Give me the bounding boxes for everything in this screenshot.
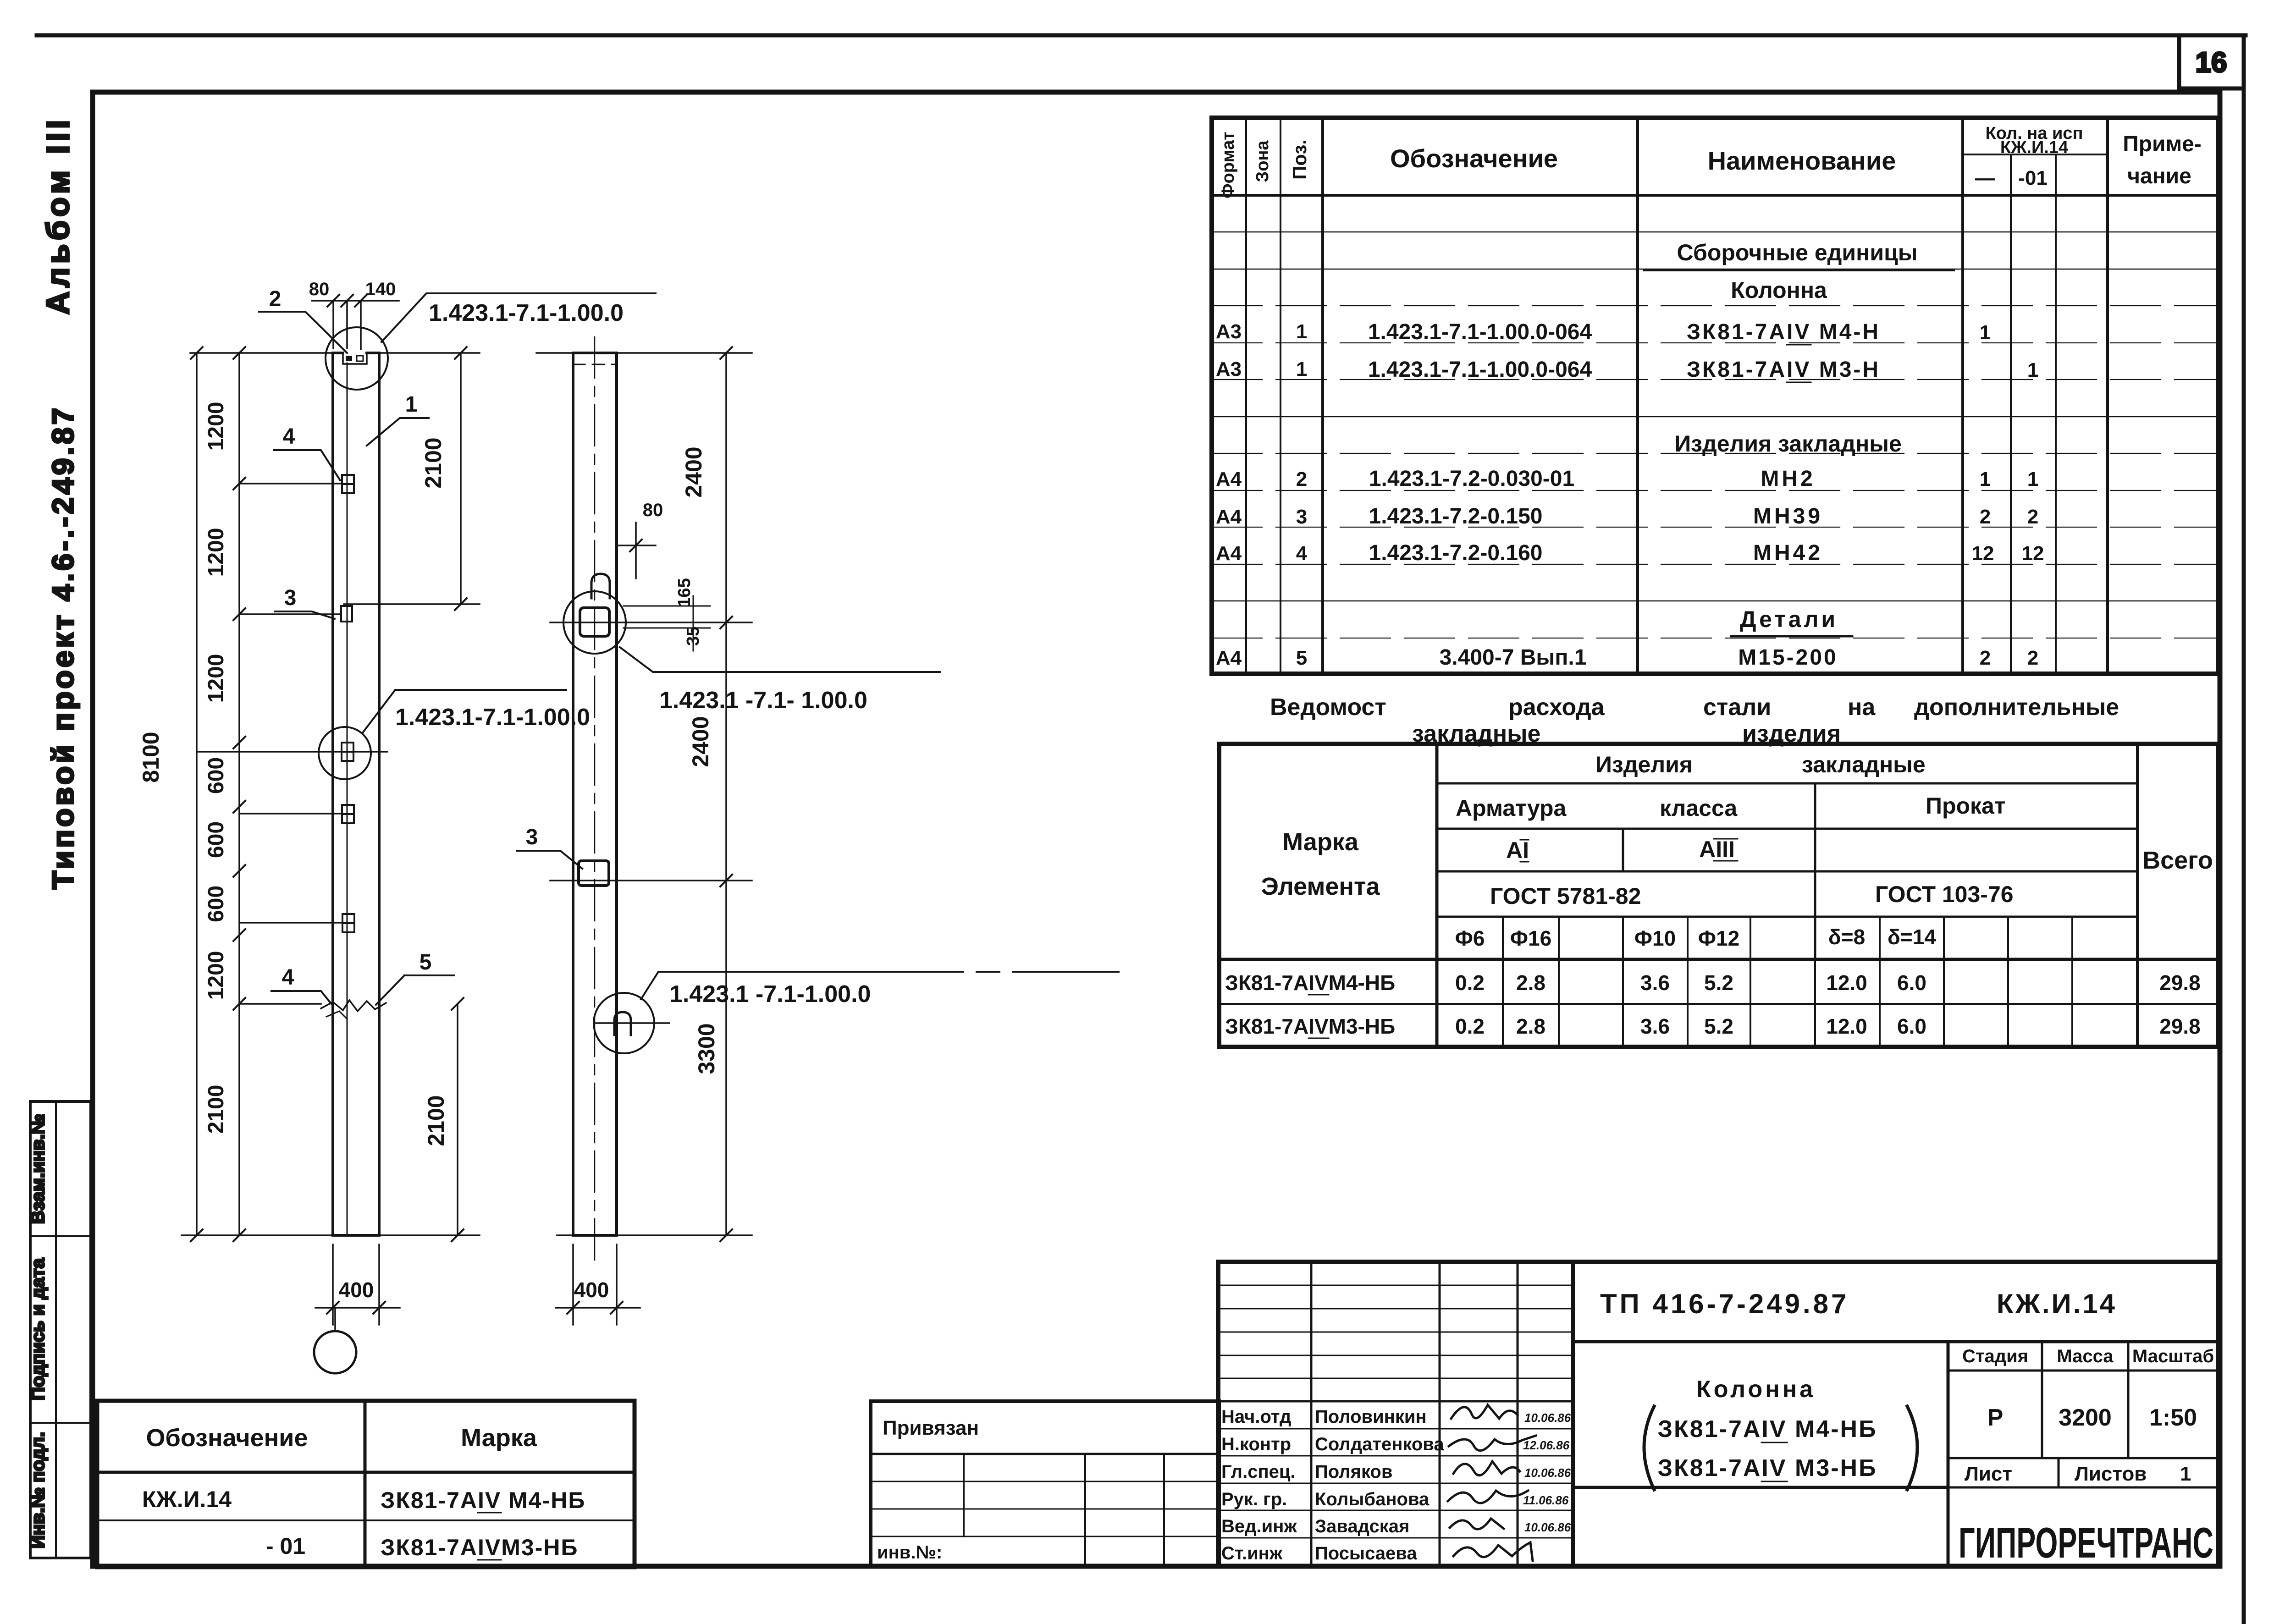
- data row 2: ЗК81-7АIVМ3-НБ: [1225, 1014, 2201, 1038]
- svg-text:Ф16: Ф16: [1510, 926, 1551, 950]
- diameter sub-column rules: [1502, 917, 1504, 1047]
- big parentheses: [1644, 1406, 1654, 1490]
- overline АI: [1520, 839, 1529, 841]
- dashed cap line near top: [573, 364, 617, 365]
- underline IV marks: [1761, 1442, 1787, 1443]
- svg-text:Гл.спец.: Гл.спец.: [1221, 1462, 1296, 1482]
- left margin strip boxes: [30, 1101, 91, 1558]
- break mark on column 1: [321, 1000, 386, 1011]
- svg-text:1.423.1-7.2-0.030-01: 1.423.1-7.2-0.030-01: [1369, 467, 1574, 491]
- callout circle on column 2 (embed МН2): [563, 591, 626, 654]
- svg-text:0.2: 0.2: [1455, 1014, 1485, 1038]
- svg-text:ЗК81-7АIV М4-Н: ЗК81-7АIV М4-Н: [1687, 320, 1880, 344]
- svg-text:А4: А4: [1216, 542, 1242, 565]
- chain ticks: [233, 478, 245, 1010]
- svg-text:12: 12: [1972, 542, 1994, 565]
- signature area column rules: [1310, 1262, 1313, 1566]
- spec table header rules: [1963, 154, 2108, 155]
- svg-text:ЗК81-7АIV М3-НБ: ЗК81-7АIV М3-НБ: [1657, 1455, 1877, 1481]
- svg-text:Прокат: Прокат: [1926, 793, 2005, 819]
- svg-text:1.423.1-7.2-0.150: 1.423.1-7.2-0.150: [1369, 504, 1543, 528]
- small dims 165 / 35: [624, 596, 710, 651]
- dim 2100 top right of column 1: [344, 353, 480, 604]
- dim 80/140 above top: [312, 301, 399, 349]
- svg-text:А4: А4: [1216, 468, 1242, 490]
- svg-text:Наименование: Наименование: [1708, 146, 1896, 175]
- notch embed marks: [346, 356, 352, 361]
- chain labels: [204, 402, 228, 1134]
- svg-text:600: 600: [204, 821, 228, 858]
- title block outer box: [1218, 1262, 2219, 1566]
- svg-text:4: 4: [1296, 542, 1308, 565]
- svg-text:Посысаева: Посысаева: [1315, 1543, 1417, 1563]
- svg-text:ГОСТ 5781-82: ГОСТ 5781-82: [1490, 883, 1641, 909]
- svg-text:стали: стали: [1703, 694, 1771, 721]
- svg-text:1: 1: [1980, 321, 1991, 344]
- dim line through circle: [550, 622, 752, 623]
- Арматура/Прокат divider: [1814, 783, 1816, 959]
- svg-text:600: 600: [204, 757, 228, 794]
- svg-text:МН39: МН39: [1753, 504, 1823, 528]
- svg-text:МН42: МН42: [1753, 541, 1823, 565]
- lifting hook top: [591, 574, 610, 598]
- svg-text:400: 400: [339, 1278, 374, 1302]
- overall dim 8100 line: [196, 353, 198, 1235]
- svg-text:2100: 2100: [204, 1085, 228, 1134]
- svg-text:Марка: Марка: [461, 1424, 537, 1452]
- svg-text:ЗК81-7АIV М4-НБ: ЗК81-7АIV М4-НБ: [1657, 1416, 1877, 1442]
- svg-text:2: 2: [1980, 647, 1991, 669]
- svg-text:1: 1: [1296, 320, 1307, 343]
- svg-text:ЗК81-7АIVМ3-НБ: ЗК81-7АIVМ3-НБ: [1225, 1014, 1395, 1038]
- signature names: [1221, 1407, 1444, 1563]
- svg-text:Стадия: Стадия: [1962, 1346, 2028, 1366]
- column 2 body: [573, 353, 617, 1235]
- svg-text:М15-200: М15-200: [1738, 645, 1838, 670]
- underline IV marks in Марка: [478, 1512, 501, 1514]
- svg-text:δ=8: δ=8: [1828, 925, 1865, 949]
- break row dim line: [239, 1003, 321, 1005]
- svg-text:Половинкин: Половинкин: [1315, 1407, 1427, 1427]
- svg-text:Рук. гр.: Рук. гр.: [1221, 1489, 1287, 1509]
- svg-text:1.423.1-7.1-1.00.0-064: 1.423.1-7.1-1.00.0-064: [1368, 358, 1592, 382]
- signature dates: [1523, 1411, 1571, 1534]
- svg-text:1: 1: [1296, 358, 1307, 380]
- svg-text:16: 16: [2196, 47, 2227, 78]
- svg-text:-01: -01: [2018, 167, 2048, 189]
- svg-text:1:50: 1:50: [2149, 1404, 2197, 1431]
- mid callout circle on column 1: [319, 727, 371, 779]
- svg-text:Листов: Листов: [2075, 1463, 2147, 1485]
- column 1 top notch: [343, 353, 367, 364]
- IV underlines in data rows: [1308, 994, 1329, 996]
- leader to callout 1.423.1-7.1-1.00.0 (mid): [362, 690, 566, 733]
- svg-text:Колонна: Колонна: [1731, 277, 1827, 303]
- embed row lines from chain: [197, 484, 387, 923]
- header captions: [1261, 752, 2213, 950]
- svg-text:Зона: Зона: [1253, 140, 1272, 182]
- svg-text:1200: 1200: [204, 951, 228, 1000]
- Лист/Листов row: [1948, 1457, 2219, 1459]
- svg-text:Элемента: Элемента: [1261, 873, 1380, 900]
- svg-text:2: 2: [2027, 647, 2038, 669]
- svg-text:ЗК81-7АIV М3-Н: ЗК81-7АIV М3-Н: [1687, 358, 1880, 382]
- svg-text:расхода: расхода: [1508, 694, 1605, 721]
- dim 400 below column 2: [556, 1244, 640, 1325]
- svg-text:Завадская: Завадская: [1315, 1516, 1409, 1536]
- underline: Сборочные единицы: [1644, 270, 1954, 271]
- COLUMNS: [138, 279, 1119, 1373]
- svg-text:2: 2: [2027, 506, 2038, 528]
- svg-text:Лист: Лист: [1965, 1463, 2012, 1485]
- svg-text:АI: АI: [1506, 837, 1529, 863]
- svg-text:3200: 3200: [2059, 1404, 2112, 1431]
- svg-text:12.0: 12.0: [1826, 1014, 1867, 1038]
- doc number: ТП 416-7-249.87 КЖ.И.14: [1600, 1288, 2117, 1319]
- svg-text:2.8: 2.8: [1516, 1014, 1545, 1038]
- svg-text:1200: 1200: [204, 528, 228, 577]
- svg-text:Солдатенкова: Солдатенкова: [1315, 1434, 1444, 1454]
- svg-text:1.423.1 -7.1- 1.00.0: 1.423.1 -7.1- 1.00.0: [659, 687, 867, 714]
- svg-text:Ф6: Ф6: [1455, 926, 1485, 950]
- svg-text:Нач.отд: Нач.отд: [1221, 1407, 1291, 1427]
- svg-text:80: 80: [309, 279, 330, 299]
- doc number cell rule: [1573, 1340, 2219, 1343]
- signature area row rules (upper empty rows): [1218, 1285, 1573, 1286]
- svg-text:29.8: 29.8: [2159, 971, 2201, 995]
- bottom callout circle on column 2: [594, 993, 654, 1053]
- svg-text:1.423.1-7.2-0.160: 1.423.1-7.2-0.160: [1369, 541, 1543, 565]
- header rules: [1437, 782, 2137, 785]
- svg-text:6.0: 6.0: [1897, 1014, 1926, 1038]
- svg-text:Р: Р: [1987, 1404, 2004, 1431]
- bottom dimension line y=2695: [182, 1234, 480, 1236]
- svg-text:1: 1: [405, 392, 418, 417]
- svg-text:5: 5: [419, 950, 432, 974]
- svg-text:2: 2: [269, 287, 281, 311]
- dim row line col2 lower embed: [550, 880, 752, 881]
- embed plates on column 1: [341, 475, 354, 932]
- underline IV in row2: [1787, 382, 1811, 383]
- svg-text:на: на: [1848, 694, 1876, 721]
- svg-text:- 01: - 01: [266, 1533, 305, 1559]
- svg-text:Обозначение: Обозначение: [1390, 144, 1558, 173]
- right dim line of column 2: [725, 353, 727, 1235]
- svg-text:А3: А3: [1216, 320, 1242, 343]
- spec table row rules: [1212, 231, 2219, 233]
- svg-text:Н.контр: Н.контр: [1221, 1434, 1291, 1454]
- svg-text:4: 4: [282, 965, 294, 990]
- data row 1: ЗК81-7АIVМ4-НБ: [1225, 971, 2201, 995]
- Марка элемента column rule: [1435, 744, 1439, 1047]
- svg-text:1200: 1200: [204, 402, 228, 451]
- svg-text:2100: 2100: [423, 1095, 449, 1146]
- underline IV in row1: [1787, 344, 1811, 346]
- STEEL-TABLE: [1219, 694, 2219, 1047]
- leader to callout (col2 mid): [620, 647, 940, 672]
- svg-text:Колыбанова: Колыбанова: [1315, 1489, 1430, 1509]
- steel table outer box: [1219, 744, 2219, 1047]
- svg-text:АIII: АIII: [1699, 837, 1735, 862]
- dim 2100 lower right of column 1: [457, 1004, 458, 1235]
- column 1 body: [333, 353, 379, 1235]
- svg-text:—: —: [1975, 167, 1995, 189]
- SPEC-TABLE: [1212, 118, 2219, 674]
- svg-text:600: 600: [204, 886, 228, 922]
- page right rule: [2242, 35, 2246, 1624]
- svg-text:КЖ.И.14: КЖ.И.14: [142, 1486, 232, 1512]
- svg-text:КЖ.И.14: КЖ.И.14: [1997, 1288, 2117, 1319]
- hook inside: [614, 1012, 631, 1035]
- svg-text:29.8: 29.8: [2159, 1014, 2201, 1038]
- svg-text:2400: 2400: [681, 446, 706, 497]
- svg-text:Взам.инв.№: Взам.инв.№: [28, 1114, 48, 1224]
- svg-text:1200: 1200: [204, 654, 228, 703]
- svg-text:5: 5: [1296, 647, 1307, 669]
- top dim line of column 2: [536, 352, 752, 354]
- svg-text:4: 4: [283, 424, 295, 449]
- svg-text:Ст.инж: Ст.инж: [1221, 1543, 1283, 1563]
- svg-text:КЖ.И.14: КЖ.И.14: [2000, 138, 2068, 157]
- svg-text:Инв.№ подл.: Инв.№ подл.: [28, 1432, 48, 1548]
- leader to callout (col2 bottom): [641, 972, 1119, 999]
- svg-text:Ф12: Ф12: [1698, 926, 1739, 950]
- svg-text:Приме-: Приме-: [2123, 132, 2202, 156]
- spec table outer box: [1212, 118, 2219, 674]
- svg-text:3: 3: [284, 586, 297, 610]
- svg-text:1: 1: [2027, 359, 2038, 381]
- svg-text:5.2: 5.2: [1704, 1014, 1733, 1038]
- svg-text:закладные: закладные: [1802, 752, 1926, 777]
- svg-text:80: 80: [643, 500, 663, 520]
- underline: Детали: [1731, 635, 1852, 638]
- svg-text:3: 3: [1296, 506, 1307, 528]
- column 1 inner edge line: [347, 363, 348, 1235]
- svg-text:3300: 3300: [694, 1023, 719, 1074]
- svg-text:2400: 2400: [688, 716, 713, 767]
- svg-text:6.0: 6.0: [1897, 971, 1926, 995]
- ОБОЗНАЧЕНИЕ/МАРКА table: [97, 1401, 635, 1567]
- svg-text:ГОСТ 103-76: ГОСТ 103-76: [1875, 881, 2014, 907]
- svg-text:ЗК81-7АIVМ4-НБ: ЗК81-7АIVМ4-НБ: [1225, 971, 1395, 995]
- svg-text:Арматура: Арматура: [1456, 795, 1567, 821]
- svg-text:2100: 2100: [420, 437, 446, 488]
- svg-text:5.2: 5.2: [1704, 971, 1733, 995]
- svg-text:2: 2: [1980, 506, 1991, 528]
- svg-text:3.6: 3.6: [1640, 971, 1670, 995]
- svg-text:Детали: Детали: [1740, 606, 1838, 632]
- bottom dim line of column 2: [557, 1234, 752, 1236]
- svg-text:Подпись и дата: Подпись и дата: [28, 1258, 48, 1400]
- svg-text:Колонна: Колонна: [1696, 1376, 1816, 1403]
- embed box in circle: [580, 608, 609, 636]
- svg-text:Ф10: Ф10: [1634, 926, 1676, 950]
- svg-text:12.0: 12.0: [1826, 971, 1867, 995]
- svg-text:8100: 8100: [138, 732, 164, 782]
- signature area row rules (named rows): [1218, 1400, 1573, 1403]
- svg-text:Марка: Марка: [1282, 828, 1359, 856]
- svg-text:МН2: МН2: [1761, 467, 1815, 491]
- svg-text:А4: А4: [1216, 647, 1242, 669]
- svg-text:3.400-7 Вып.1: 3.400-7 Вып.1: [1440, 645, 1587, 670]
- svg-text:11.06.86: 11.06.86: [1523, 1493, 1569, 1507]
- body text: [1216, 240, 2044, 670]
- svg-text:10.06.86: 10.06.86: [1524, 1520, 1571, 1534]
- svg-text:ТП 416-7-249.87: ТП 416-7-249.87: [1600, 1288, 1849, 1319]
- svg-text:1: 1: [1980, 468, 1991, 490]
- leader to callout 1.423.1-7.1-1.00.0 (top): [381, 293, 656, 342]
- svg-text:Масса: Масса: [2057, 1346, 2114, 1366]
- svg-text:Масштаб: Масштаб: [2132, 1346, 2214, 1366]
- header captions: [1219, 124, 2202, 198]
- svg-text:1.423.1 -7.1-1.00.0: 1.423.1 -7.1-1.00.0: [669, 981, 871, 1007]
- svg-text:Альбом III: Альбом III: [40, 116, 76, 315]
- svg-text:ЗК81-7АIVМ3-НБ: ЗК81-7АIVМ3-НБ: [381, 1535, 578, 1560]
- svg-text:1: 1: [2027, 468, 2038, 490]
- axis circle below column 1: [334, 1308, 336, 1331]
- svg-text:ЗК81-7АIV М4-НБ: ЗК81-7АIV М4-НБ: [381, 1487, 585, 1513]
- svg-text:3.6: 3.6: [1640, 1014, 1670, 1038]
- svg-text:0.2: 0.2: [1455, 971, 1485, 995]
- АI/АIII divider: [1622, 829, 1624, 871]
- svg-text:Всего: Всего: [2142, 847, 2213, 874]
- column 2 centerline: [594, 337, 596, 1265]
- ПРИВЯЗАН table: [871, 1401, 1219, 1566]
- Стадия/Масса/Масштаб header: [2041, 1342, 2043, 1458]
- dim 400 below column 1: [315, 1244, 400, 1325]
- svg-text:10.06.86: 10.06.86: [1524, 1466, 1571, 1480]
- svg-text:Поз.: Поз.: [1289, 139, 1310, 180]
- svg-text:Обозначение: Обозначение: [146, 1424, 308, 1452]
- name cell: Колонна (...): [1573, 1486, 1948, 1489]
- spec table column rules: [1245, 118, 1247, 674]
- ticks top: [191, 347, 203, 359]
- top callout circle: [326, 327, 388, 390]
- svg-text:Типовой проект 4.6-.-249.87: Типовой проект 4.6-.-249.87: [46, 405, 80, 889]
- svg-text:3: 3: [526, 825, 538, 849]
- svg-text:400: 400: [574, 1278, 609, 1302]
- top dimension line y=770: [190, 352, 480, 354]
- TITLE-BLOCK: [97, 1262, 2219, 1567]
- svg-text:140: 140: [365, 279, 396, 299]
- svg-text:12.06.86: 12.06.86: [1523, 1438, 1570, 1452]
- segment dim chain: [238, 353, 240, 1235]
- svg-text:Сборочные единицы: Сборочные единицы: [1677, 240, 1918, 265]
- svg-text:Ведомост: Ведомост: [1270, 694, 1386, 721]
- Всего column rule: [2136, 744, 2139, 1047]
- svg-text:2: 2: [1296, 468, 1307, 490]
- overline АIII: [1714, 838, 1738, 840]
- svg-text:10.06.86: 10.06.86: [1524, 1411, 1571, 1425]
- svg-text:1.423.1-7.1-1.00.0: 1.423.1-7.1-1.00.0: [395, 704, 590, 731]
- svg-text:дополнительные: дополнительные: [1914, 694, 2119, 721]
- title: Ведомость расхода стали: [1270, 694, 2119, 747]
- svg-text:2.8: 2.8: [1516, 971, 1545, 995]
- svg-text:1: 1: [2180, 1463, 2191, 1485]
- svg-text:1.423.1-7.1-1.00.0-064: 1.423.1-7.1-1.00.0-064: [1368, 320, 1592, 344]
- svg-text:чание: чание: [2127, 164, 2191, 188]
- sheet number box "16": [2179, 35, 2244, 88]
- svg-text:ГИПРОРЕЧТРАНС: ГИПРОРЕЧТРАНС: [1959, 1519, 2213, 1567]
- svg-text:Привязан: Привязан: [883, 1417, 979, 1439]
- svg-text:А3: А3: [1216, 358, 1242, 380]
- svg-text:12: 12: [2022, 542, 2044, 565]
- handwritten signatures: [1448, 1405, 1536, 1561]
- svg-text:Вед.инж: Вед.инж: [1221, 1516, 1297, 1536]
- svg-text:А4: А4: [1216, 506, 1242, 528]
- svg-text:Изделия закладные: Изделия закладные: [1674, 431, 1902, 457]
- svg-text:инв.№:: инв.№:: [877, 1542, 942, 1563]
- page top rule: [37, 33, 2246, 38]
- svg-text:Изделия: Изделия: [1595, 752, 1693, 777]
- svg-text:165: 165: [675, 578, 694, 607]
- svg-text:класса: класса: [1660, 795, 1738, 821]
- svg-text:1.423.1-7.1-1.00.0: 1.423.1-7.1-1.00.0: [429, 300, 624, 326]
- lower embed on column 2: [579, 861, 609, 886]
- svg-text:Поляков: Поляков: [1315, 1462, 1392, 1482]
- svg-text:Формат: Формат: [1219, 132, 1238, 198]
- svg-text:35: 35: [684, 627, 703, 646]
- svg-text:δ=14: δ=14: [1888, 925, 1936, 949]
